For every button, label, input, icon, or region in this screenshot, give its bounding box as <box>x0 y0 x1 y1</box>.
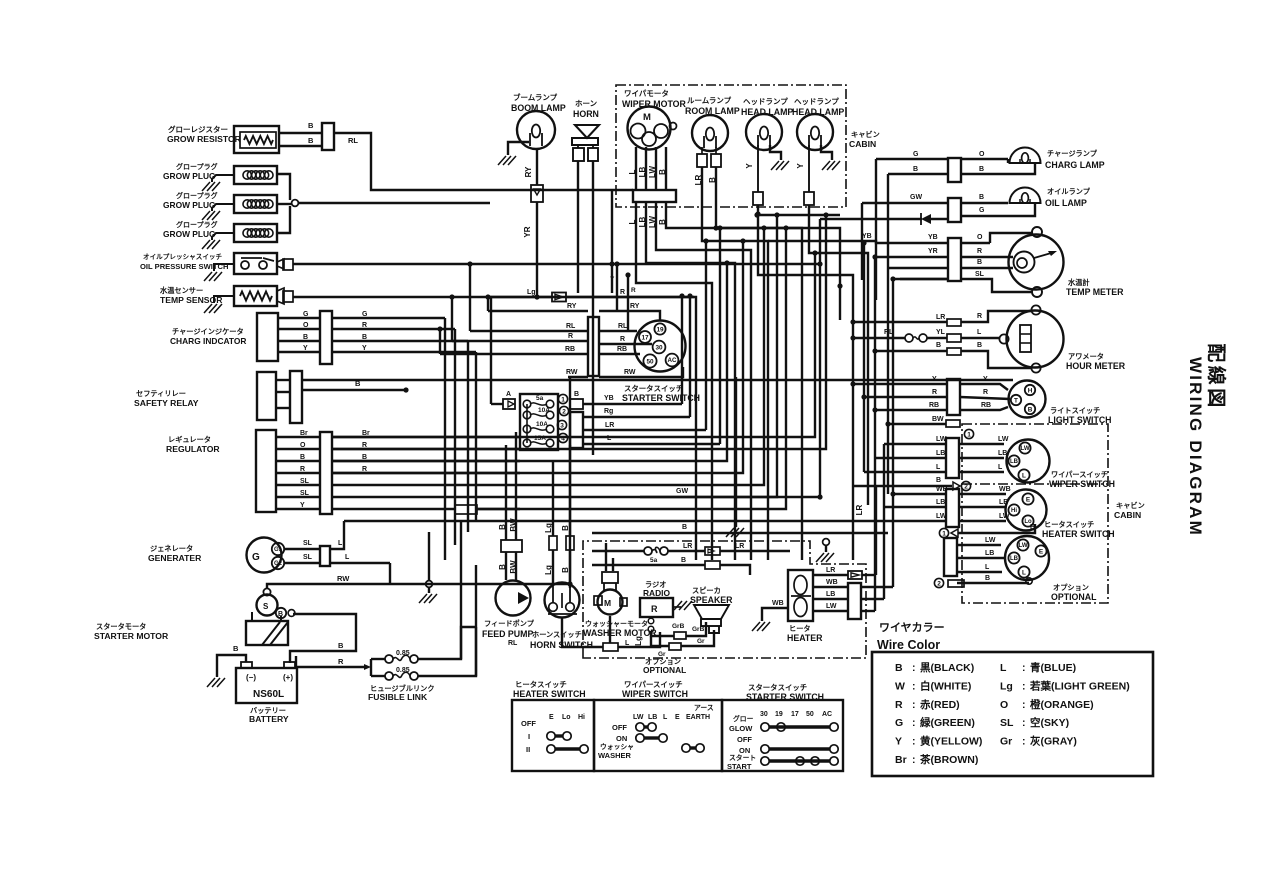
svg-text::: : <box>1022 699 1026 711</box>
svg-text:R: R <box>932 389 937 396</box>
svg-text:HEATER: HEATER <box>787 633 823 643</box>
connector B fuse <box>570 391 583 409</box>
svg-text:NS60L: NS60L <box>253 689 284 700</box>
temp sensor <box>159 286 293 313</box>
wire starter switch RY <box>599 303 660 321</box>
svg-text:L: L <box>1022 569 1026 576</box>
wire starter motor RW <box>267 574 570 588</box>
fuse 5A optional <box>592 543 790 564</box>
svg-text:LW: LW <box>936 513 947 520</box>
svg-text:スタート: スタート <box>729 753 756 762</box>
svg-text:若葉(LIGHT GREEN): 若葉(LIGHT GREEN) <box>1029 679 1130 692</box>
wire chg G vertical <box>444 318 446 560</box>
svg-text:B: B <box>682 524 687 531</box>
connector head lamp 1 <box>745 145 763 205</box>
wire regulator O <box>276 442 520 449</box>
wire wiper motor LB lower <box>638 202 735 560</box>
wire RB feed <box>437 326 442 354</box>
wire battery R to fusible link <box>296 656 371 670</box>
motor WASHER MOTOR <box>583 572 657 638</box>
wire optional L <box>957 564 1002 572</box>
wire charg B vertical <box>887 174 889 494</box>
svg-text:RB: RB <box>617 346 627 353</box>
table heater switch <box>512 680 594 771</box>
connector room lamp right <box>711 154 721 167</box>
title wiring diagram vertical <box>1186 343 1228 537</box>
svg-text:17: 17 <box>641 334 649 341</box>
lamp HEAD LAMP 2 <box>792 96 844 150</box>
svg-text:WB: WB <box>772 600 784 607</box>
svg-text:L: L <box>1000 662 1007 674</box>
svg-text:L: L <box>663 714 668 721</box>
wire reg Y row cont <box>477 225 789 509</box>
svg-text:GROW PLUG: GROW PLUG <box>163 171 216 181</box>
svg-text:BW: BW <box>509 560 518 574</box>
svg-text::: : <box>912 754 916 766</box>
wire top mid horizontal y215 <box>754 212 840 217</box>
svg-text:Br: Br <box>895 754 907 766</box>
svg-text:HORN: HORN <box>573 109 599 119</box>
wire fuse L <box>583 435 720 444</box>
svg-text:RY: RY <box>567 303 577 310</box>
svg-text:ヒータスイッチ: ヒータスイッチ <box>1044 520 1094 529</box>
wire RW feed vertical <box>569 377 571 584</box>
wire heater LR vertical <box>875 486 877 575</box>
svg-text:Y: Y <box>610 276 615 283</box>
svg-text:3: 3 <box>560 423 564 430</box>
svg-text:RW: RW <box>624 369 636 376</box>
svg-text:TEMP METER: TEMP METER <box>1066 287 1124 297</box>
wire horn switch B <box>561 445 570 588</box>
wire GW vertical <box>861 203 863 280</box>
svg-text:灰(GRAY): 灰(GRAY) <box>1030 735 1077 748</box>
svg-text:(−): (−) <box>246 673 256 682</box>
svg-text:Lg: Lg <box>544 565 553 575</box>
wire chg O vertical <box>454 329 456 545</box>
svg-text:空(SKY): 空(SKY) <box>1030 716 1069 729</box>
wire heater switch WB <box>893 486 1011 494</box>
wire temp meter YR in <box>875 248 948 257</box>
cabin box top dashed <box>616 85 880 207</box>
svg-text:R: R <box>568 333 573 340</box>
wire Y feed starter <box>610 261 620 311</box>
connector grow resistor <box>322 123 334 150</box>
ground mid with node <box>816 539 834 562</box>
wire oil pressure switch out <box>293 261 823 266</box>
svg-text:RL: RL <box>348 136 358 145</box>
wire fuse LR <box>583 422 706 430</box>
svg-text:R: R <box>620 289 625 296</box>
svg-text:RW: RW <box>566 369 578 376</box>
svg-text:Lo: Lo <box>562 714 571 721</box>
wire heater WB ground <box>752 600 788 631</box>
svg-text:R: R <box>300 466 305 473</box>
wire safety relay top <box>276 379 1013 381</box>
svg-text:ワイパースイッチ: ワイパースイッチ <box>1051 470 1108 479</box>
svg-text:LR: LR <box>826 567 835 574</box>
wire wiper motor LW lower <box>648 202 751 560</box>
wire optional LW <box>957 537 1001 545</box>
switch WIPER SWITCH right <box>1007 440 1115 490</box>
wire fuse YB <box>583 395 682 404</box>
svg-text:H: H <box>1028 387 1033 394</box>
wire boom lamp YR down <box>523 202 540 300</box>
wire cabin B dash inner <box>962 483 1108 485</box>
svg-text:OFF: OFF <box>612 723 627 732</box>
svg-text:I: I <box>528 732 530 741</box>
wire starter switch R <box>599 336 652 344</box>
svg-text:LW: LW <box>998 436 1009 443</box>
wire diode vertical <box>640 219 823 500</box>
svg-text:B: B <box>308 121 314 130</box>
svg-text:Lg: Lg <box>634 636 643 646</box>
wire generator SL lower <box>285 554 390 563</box>
svg-text:LB: LB <box>638 166 647 177</box>
svg-text:EARTH: EARTH <box>686 714 710 721</box>
svg-text:CABIN: CABIN <box>1114 510 1141 520</box>
svg-text:グロー: グロー <box>733 714 754 723</box>
ground center <box>419 532 437 603</box>
svg-text:G: G <box>979 207 985 214</box>
svg-text:HEATER SWITCH: HEATER SWITCH <box>1042 529 1115 539</box>
wire Rg up <box>687 293 692 417</box>
svg-text:B: B <box>985 575 990 582</box>
horn <box>572 99 599 161</box>
lamp ROOM LAMP <box>685 95 740 151</box>
svg-text:10A: 10A <box>538 407 550 414</box>
wire battery minus to ground <box>207 644 246 687</box>
svg-text:REGULATOR: REGULATOR <box>166 444 220 454</box>
svg-text:B: B <box>561 567 570 573</box>
svg-text:LB: LB <box>999 499 1008 506</box>
svg-text:L: L <box>345 554 350 561</box>
svg-text:ブームランプ: ブームランプ <box>513 92 558 102</box>
svg-text:B: B <box>977 342 982 349</box>
wire gen L to heater LW <box>344 520 875 522</box>
connector head lamp 2 <box>796 145 814 205</box>
heater <box>787 570 823 643</box>
connector BW wiper <box>888 416 960 427</box>
fusible link <box>368 650 435 702</box>
wire starter switch RB <box>599 346 640 354</box>
node 1 fuse <box>558 394 567 403</box>
svg-text:1: 1 <box>967 432 971 439</box>
table starter switch <box>722 683 843 771</box>
svg-text:YL: YL <box>936 329 946 336</box>
svg-text:CHARG LAMP: CHARG LAMP <box>1045 160 1105 170</box>
svg-text:L: L <box>985 564 990 571</box>
svg-text:RB: RB <box>929 402 939 409</box>
svg-text:RY: RY <box>524 166 533 177</box>
wire horn switch Lg <box>544 460 553 585</box>
svg-text:Y: Y <box>362 345 367 352</box>
svg-text:0.85: 0.85 <box>396 650 410 657</box>
wire light switch RB <box>875 402 1008 410</box>
svg-text:M: M <box>643 112 651 123</box>
svg-text:LR: LR <box>605 422 614 429</box>
svg-text:WB: WB <box>999 486 1011 493</box>
wire horn left down <box>577 161 579 293</box>
svg-text:50: 50 <box>806 711 814 718</box>
svg-text:スピーカ: スピーカ <box>692 586 721 595</box>
svg-text::: : <box>912 699 916 711</box>
node 2 fuse <box>559 406 568 415</box>
svg-text:Gr: Gr <box>697 638 705 645</box>
wire regulator SL <box>276 478 320 485</box>
svg-text:ON: ON <box>739 746 750 755</box>
svg-text:黒(BLACK): 黒(BLACK) <box>920 662 974 674</box>
svg-text:LW: LW <box>648 166 657 178</box>
svg-text:2: 2 <box>562 409 566 416</box>
connector starter switch bar <box>588 317 599 376</box>
wire right verticals junctions <box>837 240 895 611</box>
connector A <box>491 391 515 409</box>
wire wiper motor B upper <box>658 147 667 190</box>
svg-text:W: W <box>895 680 905 692</box>
wire to starter bar RW <box>566 369 588 377</box>
svg-text:GLOW: GLOW <box>729 724 753 733</box>
svg-text:B: B <box>658 169 667 175</box>
svg-text:レギュレータ: レギュレータ <box>168 435 211 444</box>
wire charge indicator G <box>278 311 445 318</box>
svg-text:ウォッシャ: ウォッシャ <box>600 742 634 751</box>
svg-text:FEED PUMP: FEED PUMP <box>482 629 533 639</box>
wire starter loop <box>491 289 696 560</box>
svg-text:WB: WB <box>936 486 948 493</box>
svg-text:B: B <box>913 166 918 173</box>
svg-text:SL: SL <box>303 554 313 561</box>
pump FEED PUMP <box>482 581 535 640</box>
svg-text:ウォッシャーモータ: ウォッシャーモータ <box>585 619 648 628</box>
svg-text:G: G <box>252 552 260 563</box>
svg-text:E: E <box>549 714 554 721</box>
svg-text:STARTER MOTOR: STARTER MOTOR <box>94 631 169 641</box>
wire LR up <box>703 238 708 430</box>
svg-text:B: B <box>561 525 570 531</box>
wire RL from grow resistor <box>334 133 633 190</box>
svg-text:SL: SL <box>300 490 310 497</box>
svg-text:(+): (+) <box>283 673 293 682</box>
wire charge indicator Y <box>278 345 476 352</box>
svg-text:19: 19 <box>656 326 664 333</box>
svg-text:RY: RY <box>630 303 640 310</box>
svg-text:M: M <box>604 598 611 608</box>
node 2 optional <box>934 578 964 587</box>
svg-text:グロープラグ: グロープラグ <box>176 162 218 171</box>
wire temp meter SL in <box>900 278 948 280</box>
svg-text:5a: 5a <box>536 395 544 402</box>
svg-text:黄(YELLOW): 黄(YELLOW) <box>920 735 982 748</box>
svg-text:START: START <box>727 762 752 771</box>
svg-text:YB: YB <box>928 234 938 241</box>
connector hour meter R <box>853 311 1031 326</box>
wire wiper motor LB upper <box>638 147 647 190</box>
svg-text:オイルランプ: オイルランプ <box>1047 187 1091 196</box>
svg-text:B: B <box>936 342 941 349</box>
wire chg Y vertical <box>475 352 477 521</box>
svg-text:R: R <box>631 287 636 294</box>
svg-text:B: B <box>708 177 717 183</box>
svg-text:GrB: GrB <box>672 623 685 630</box>
meter HOUR METER <box>999 305 1125 372</box>
svg-text:Hi: Hi <box>578 714 585 721</box>
svg-text:OFF: OFF <box>737 735 752 744</box>
svg-text:YB: YB <box>862 233 872 240</box>
svg-text:オプション: オプション <box>1053 583 1089 592</box>
optional box bottom dashed <box>583 541 866 658</box>
svg-text:LW: LW <box>985 537 996 544</box>
svg-text:G: G <box>913 151 919 158</box>
legend wire color <box>872 621 1153 776</box>
svg-text:5a: 5a <box>650 557 658 564</box>
svg-text:セフティリレー: セフティリレー <box>136 389 186 398</box>
svg-text:B: B <box>278 611 283 618</box>
svg-text:LW: LW <box>648 216 657 228</box>
svg-text:LB: LB <box>936 450 945 457</box>
svg-text:LW: LW <box>1019 543 1028 549</box>
svg-text:B: B <box>574 391 579 398</box>
svg-text::: : <box>1022 717 1026 729</box>
wire heater switch LB <box>884 499 1008 507</box>
svg-text:HOUR METER: HOUR METER <box>1066 361 1126 371</box>
svg-text:19: 19 <box>775 711 783 718</box>
relay SAFETY RELAY <box>134 372 276 420</box>
svg-text:L: L <box>998 464 1003 471</box>
svg-text:LB: LB <box>648 714 657 721</box>
svg-text::: : <box>1022 662 1026 674</box>
svg-text:ワイパースイッチ: ワイパースイッチ <box>624 680 683 689</box>
wire fusible vertical 1 <box>460 521 462 659</box>
svg-text:10A: 10A <box>536 421 548 428</box>
node 4 fuse <box>558 433 567 442</box>
svg-text:ROOM LAMP: ROOM LAMP <box>685 106 740 116</box>
svg-text:ヘッドランプ: ヘッドランプ <box>743 96 788 106</box>
glow plug GROW PLUG 2 <box>163 191 277 220</box>
svg-text:グロープラグ: グロープラグ <box>176 220 218 229</box>
svg-text:L: L <box>628 219 637 224</box>
lamp BOOM LAMP <box>511 92 566 149</box>
svg-text:LW: LW <box>826 603 837 610</box>
svg-text:L: L <box>628 169 637 174</box>
svg-text:ヒータスイッチ: ヒータスイッチ <box>515 680 567 689</box>
svg-text:17: 17 <box>791 711 799 718</box>
svg-text:B: B <box>233 644 239 653</box>
oil pressure switch <box>140 252 293 281</box>
svg-text:Hi: Hi <box>1011 508 1017 514</box>
connector generator bar <box>320 546 330 566</box>
svg-text:LB: LB <box>998 450 1007 457</box>
wire safety relay B <box>276 379 409 408</box>
svg-text:B: B <box>979 166 984 173</box>
wire feed pump B <box>498 445 507 580</box>
svg-text:HEAD LAMP: HEAD LAMP <box>792 107 844 117</box>
connector charge indicator bar <box>320 311 332 364</box>
wire regulator R <box>276 466 520 473</box>
svg-text:GW: GW <box>910 194 922 201</box>
wire light switch R <box>864 389 1010 399</box>
svg-text:2: 2 <box>937 581 941 588</box>
svg-text:1: 1 <box>942 531 946 538</box>
svg-text::: : <box>912 717 916 729</box>
wire heater out <box>861 587 893 611</box>
svg-text:R: R <box>620 336 625 343</box>
wire chg B vertical <box>467 341 469 532</box>
svg-text:LB: LB <box>1010 556 1019 562</box>
svg-text:GW: GW <box>676 488 688 495</box>
wire temp meter B in <box>888 267 948 269</box>
svg-text:B: B <box>895 662 903 674</box>
svg-text:SPEAKER: SPEAKER <box>690 595 733 605</box>
lamp HEAD LAMP 1 <box>741 96 793 150</box>
connector horn switch Lg <box>549 536 557 550</box>
connector wiper switch bar <box>946 438 959 478</box>
svg-text:ジェネレータ: ジェネレータ <box>150 544 193 553</box>
svg-text:G: G <box>303 311 309 318</box>
wire oil lamp GW <box>862 194 1008 203</box>
wire reg B row <box>332 260 730 461</box>
svg-text:LR: LR <box>855 504 864 515</box>
switch HORN SWITCH <box>530 583 593 651</box>
svg-text:WIRING DIAGRAM: WIRING DIAGRAM <box>1186 357 1205 537</box>
svg-text::: : <box>912 680 916 692</box>
svg-text:G2: G2 <box>274 561 283 567</box>
svg-text:WIPER SWITCH: WIPER SWITCH <box>622 689 688 699</box>
svg-text:キャビン: キャビン <box>851 130 880 139</box>
svg-text:Y: Y <box>895 736 902 748</box>
wire temp meter R <box>961 248 1013 257</box>
svg-text:LW: LW <box>999 513 1010 520</box>
wire regulator Y out <box>332 505 520 514</box>
node 3 fuse <box>557 420 566 429</box>
switch LIGHT SWITCH <box>1009 381 1112 426</box>
svg-text:YR: YR <box>928 248 938 255</box>
svg-text:WB: WB <box>826 579 838 586</box>
svg-text:1: 1 <box>561 397 565 404</box>
svg-text:Y: Y <box>983 376 988 383</box>
connector optional bar <box>944 538 957 576</box>
svg-text:CHARG INDCATOR: CHARG INDCATOR <box>170 336 246 346</box>
svg-text:30: 30 <box>655 344 663 351</box>
switch STARTER SWITCH <box>622 321 700 404</box>
svg-text:STARTER SWITCH: STARTER SWITCH <box>622 393 700 403</box>
svg-text:橙(ORANGE): 橙(ORANGE) <box>1030 698 1094 711</box>
wire head lamp 1 ground <box>770 145 789 170</box>
wire starter switch RW <box>599 367 683 377</box>
svg-text:BW: BW <box>932 416 944 423</box>
ground radio <box>673 601 692 610</box>
svg-text:LW: LW <box>1021 446 1030 452</box>
svg-text:OFF: OFF <box>521 719 536 728</box>
meter TEMP METER <box>1009 227 1125 297</box>
svg-text:50: 50 <box>646 358 654 365</box>
svg-text:Y: Y <box>932 376 937 383</box>
svg-text:R: R <box>977 248 982 255</box>
svg-text:B: B <box>498 564 507 570</box>
regulator REGULATOR <box>166 430 276 512</box>
svg-text:AC: AC <box>668 357 677 364</box>
wire optional B <box>957 575 1029 583</box>
svg-text:CABIN: CABIN <box>849 139 876 149</box>
wire feed pump BW <box>509 432 518 580</box>
svg-text:キャビン: キャビン <box>1116 501 1145 510</box>
svg-text:S: S <box>263 602 269 611</box>
switch HEATER SWITCH right <box>1006 490 1115 540</box>
svg-text:RW: RW <box>337 574 350 583</box>
wire RL horn switch <box>508 618 603 647</box>
svg-text:B: B <box>936 477 941 484</box>
connector horn switch B <box>566 536 574 550</box>
wire wiper switch LB <box>875 450 1007 458</box>
